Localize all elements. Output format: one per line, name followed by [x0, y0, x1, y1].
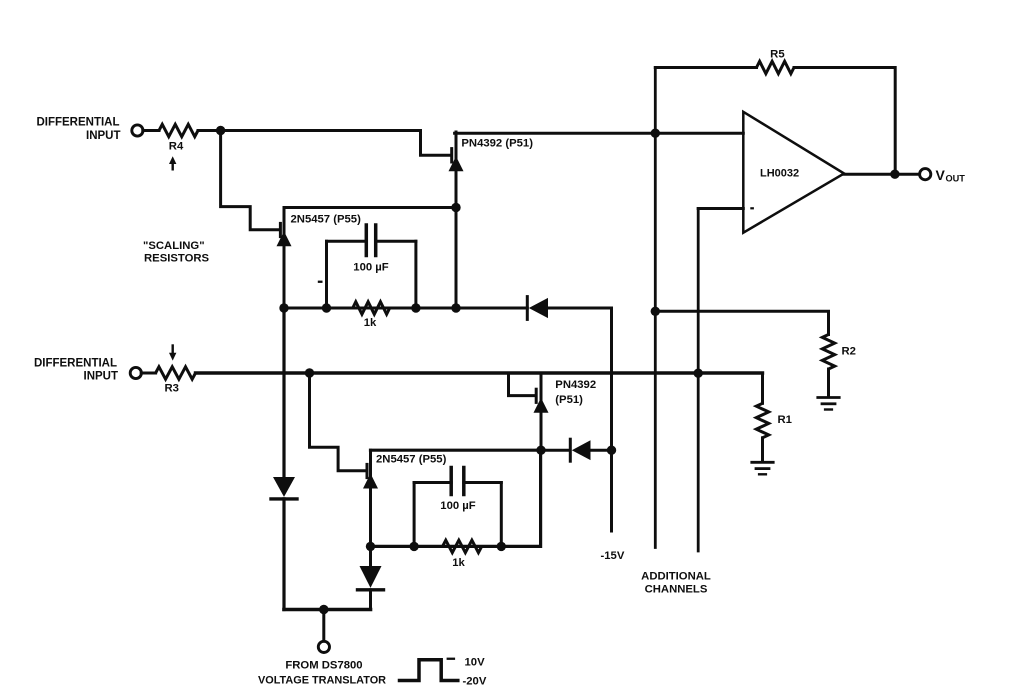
transistor Q1 PN4392 gate lead: [421, 131, 452, 163]
label 100 uF lower: [440, 500, 475, 512]
terminal: lower input: [130, 367, 141, 378]
svg-text:V: V: [936, 167, 946, 183]
svg-text:100 µF: 100 µF: [440, 500, 475, 512]
junction dot: [322, 303, 331, 312]
svg-text:"SCALING": "SCALING": [143, 240, 205, 252]
svg-text:1k: 1k: [364, 317, 377, 329]
wire: [827, 369, 830, 397]
label (P51): [555, 394, 583, 406]
svg-text:PN4392: PN4392: [555, 379, 596, 391]
label 100 uF: [353, 261, 388, 273]
svg-text:R2: R2: [842, 345, 856, 357]
junction dot: [497, 542, 506, 551]
svg-text:10V: 10V: [465, 657, 486, 669]
label -15V: [601, 550, 625, 562]
label SCALING RESISTORS: [143, 240, 210, 264]
resistor R2: [822, 335, 834, 370]
waveform: pulse: [400, 660, 458, 681]
capacitor C2 stubs: [414, 483, 501, 547]
label R1: [778, 414, 792, 426]
label 1k: [364, 317, 377, 329]
junction dot node B: [305, 368, 314, 377]
wire: to R2: [655, 311, 828, 334]
capacitor C1 stubs: [327, 241, 416, 308]
resistor R5: [757, 61, 794, 73]
svg-text:R4: R4: [169, 140, 184, 152]
wire: Q1 drain to op-amp +: [455, 132, 744, 135]
wire: [282, 499, 285, 610]
label R5: [770, 48, 784, 60]
transistor Q4 2N5457 gate staircase: [310, 373, 368, 478]
svg-text:R1: R1: [778, 414, 792, 426]
wire: Q4 drain row: [371, 449, 542, 452]
transistor Q3 channel: [534, 373, 549, 450]
trim arrow at R4: [169, 156, 176, 169]
svg-text:PN4392 (P51): PN4392 (P51): [461, 138, 533, 150]
svg-text:1k: 1k: [452, 557, 465, 569]
label -20V: [463, 676, 487, 688]
label R3: [165, 382, 179, 394]
svg-text:-20V: -20V: [463, 676, 487, 688]
wire: op-amp - input: [698, 207, 743, 210]
svg-text:CHANNELS: CHANNELS: [645, 583, 708, 595]
resistor 1k lower: [443, 540, 482, 552]
node: upper differential input label: [36, 117, 120, 143]
svg-text:INPUT: INPUT: [84, 370, 119, 382]
diode D4: [358, 546, 384, 589]
label R2: [842, 345, 856, 357]
wire: output: [844, 173, 920, 176]
wire: left vertical: [282, 308, 285, 477]
junction dot: [366, 542, 375, 551]
svg-text:RESISTORS: RESISTORS: [144, 252, 210, 264]
junction dot: [409, 542, 418, 551]
svg-text:INPUT: INPUT: [86, 130, 121, 142]
resistor R3: [156, 367, 196, 379]
transistor Q3 PN4392 gate lead: [509, 373, 537, 402]
junction dot: [607, 446, 616, 455]
svg-text:100 µF: 100 µF: [353, 261, 388, 273]
label PN4392: [555, 379, 596, 391]
terminal Vout: [920, 169, 931, 180]
svg-text:FROM DS7800: FROM DS7800: [285, 659, 362, 671]
junction dot node A: [216, 126, 225, 135]
label PN4392 (P51): [461, 138, 533, 150]
label 2N5457 (P55): [291, 213, 362, 225]
wire: [591, 449, 612, 452]
transistor Q4 channel: [363, 450, 378, 546]
minus mark: [750, 207, 754, 209]
wire: lower input row: [196, 371, 763, 374]
resistor R1: [756, 403, 768, 438]
terminal: from DS7800: [318, 641, 329, 652]
svg-text:VOLTAGE TRANSLATOR: VOLTAGE TRANSLATOR: [258, 675, 386, 687]
ground: [752, 462, 773, 474]
label R4: [169, 140, 184, 152]
trim arrow at R3: [169, 346, 176, 361]
svg-text:R3: R3: [165, 382, 179, 394]
junction dot: [451, 203, 460, 212]
wire: [322, 610, 325, 642]
wire: Q2 drain row: [284, 206, 456, 209]
svg-text:LH0032: LH0032: [760, 167, 799, 179]
svg-text:(P51): (P51): [555, 394, 583, 406]
svg-text:ADDITIONAL: ADDITIONAL: [641, 570, 711, 582]
wire: -15V line: [610, 308, 613, 531]
diode D1: [527, 297, 548, 320]
wire: to R1: [761, 373, 764, 403]
junction dot: [651, 307, 660, 316]
svg-text:OUT: OUT: [946, 173, 966, 183]
wire: [198, 129, 421, 132]
resistor R4: [159, 124, 198, 136]
diode D2: [541, 439, 591, 461]
speck: [318, 281, 323, 283]
wire: Q1 source down: [455, 208, 458, 309]
svg-text:2N5457 (P55): 2N5457 (P55): [291, 213, 362, 225]
svg-text:2N5457 (P55): 2N5457 (P55): [376, 453, 447, 465]
op-amp U1 LH0032: [743, 112, 844, 233]
svg-text:-15V: -15V: [601, 550, 625, 562]
wire: [369, 590, 372, 610]
junction dot: [890, 170, 899, 179]
wire: summing node vertical: [654, 68, 657, 548]
svg-text:DIFFERENTIAL: DIFFERENTIAL: [36, 117, 119, 129]
terminal: upper input: [132, 125, 143, 136]
label 1k lower: [452, 557, 465, 569]
label VOUT: [936, 167, 966, 183]
resistor 1k upper: [353, 302, 390, 314]
wire: [761, 438, 764, 462]
wire: [655, 66, 756, 69]
transistor Q1 channel: [449, 132, 464, 208]
label 2N5457 (P55) lower: [376, 453, 447, 465]
wire: [548, 307, 612, 310]
capacitor C2 plates: [451, 468, 464, 495]
transistor Q2 2N5457 gate staircase: [221, 131, 281, 237]
label FROM DS7800: [258, 659, 386, 686]
junction dot: [651, 129, 660, 138]
junction dot: [694, 369, 703, 378]
node: lower differential input label: [34, 357, 118, 382]
svg-text:R5: R5: [770, 48, 784, 60]
junction dot: [279, 303, 288, 312]
wire: inverting input vertical: [697, 209, 700, 552]
diode D3: [271, 477, 297, 499]
junction dot: [536, 446, 545, 455]
wire: [141, 372, 155, 375]
capacitor C1 plates: [366, 225, 375, 256]
label ADDITIONAL CHANNELS: [641, 570, 711, 595]
svg-text:DIFFERENTIAL: DIFFERENTIAL: [34, 357, 117, 369]
wire: [143, 129, 159, 132]
label 10V: [447, 657, 485, 669]
wire: bottom rail: [284, 608, 371, 612]
junction dot: [411, 303, 420, 312]
ground: [818, 398, 839, 410]
wire: source row: [284, 307, 527, 310]
junction dot: [451, 303, 460, 312]
wire: lower source row: [371, 450, 541, 546]
transistor Q2 channel: [277, 208, 292, 309]
wire: [794, 68, 895, 175]
junction dot: [319, 605, 328, 614]
